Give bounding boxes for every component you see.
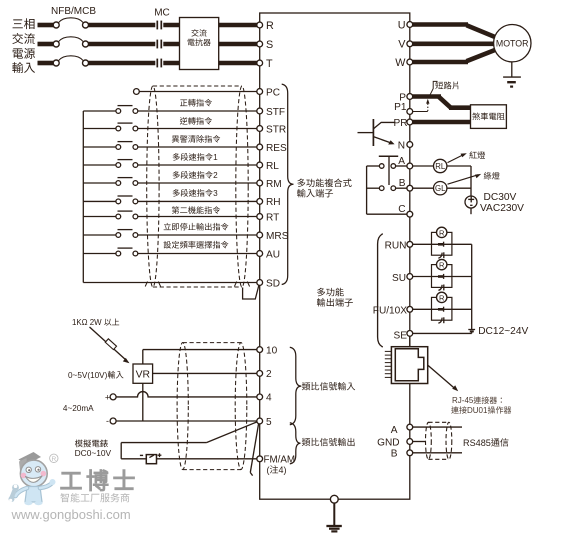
svg-text:RES: RES (266, 143, 287, 154)
svg-text:PC: PC (266, 87, 280, 98)
svg-text:MOTOR: MOTOR (496, 38, 529, 48)
svg-text:RL: RL (435, 162, 446, 171)
svg-text:PR: PR (394, 118, 408, 129)
svg-text:VAC230V: VAC230V (480, 203, 524, 214)
svg-text:MRS: MRS (266, 231, 289, 242)
svg-text:4): 4) (279, 465, 287, 475)
svg-text:RT: RT (266, 212, 279, 223)
svg-text:A: A (398, 156, 405, 167)
svg-text:DC0~10V: DC0~10V (75, 448, 112, 458)
svg-text:NFB/MCB: NFB/MCB (51, 6, 96, 17)
svg-text:2: 2 (266, 369, 272, 380)
svg-text:C: C (398, 204, 405, 215)
svg-text:MC: MC (154, 8, 170, 19)
svg-text:0~5V(10V): 0~5V(10V) (68, 371, 108, 380)
svg-text:U: U (398, 19, 406, 31)
svg-text:AU: AU (266, 249, 280, 260)
svg-text:N: N (398, 140, 405, 151)
svg-text:1: 1 (213, 153, 218, 162)
svg-text:RH: RH (266, 197, 281, 208)
svg-text:5: 5 (266, 417, 272, 428)
svg-text:B: B (391, 449, 398, 460)
svg-text:DU01: DU01 (467, 406, 488, 415)
svg-text:R: R (439, 261, 445, 270)
svg-text:3: 3 (213, 189, 218, 198)
svg-text:W: W (395, 57, 406, 69)
svg-text:V: V (398, 39, 406, 51)
svg-text:-: - (106, 416, 109, 426)
svg-text:DC30V: DC30V (484, 192, 517, 203)
svg-text:(: ( (267, 465, 270, 475)
svg-text:DC12~24V: DC12~24V (478, 326, 528, 337)
svg-text:GND: GND (377, 437, 399, 448)
svg-text:T: T (266, 58, 273, 70)
svg-text:R: R (51, 456, 56, 463)
svg-text:VR: VR (136, 370, 151, 381)
svg-text:A: A (391, 425, 398, 436)
svg-text:P1: P1 (394, 102, 407, 113)
svg-text:4: 4 (266, 393, 272, 404)
svg-text:www.gongboshi.com: www.gongboshi.com (11, 507, 131, 522)
svg-text:RS485: RS485 (463, 438, 491, 448)
svg-text:B: B (399, 178, 406, 189)
svg-text:STF: STF (266, 107, 285, 118)
svg-text:RM: RM (266, 179, 282, 190)
svg-text:4~20mA: 4~20mA (63, 404, 94, 413)
svg-text:SE: SE (394, 330, 408, 341)
svg-text:SU: SU (392, 273, 406, 284)
svg-text:S: S (266, 39, 273, 51)
svg-text:2: 2 (213, 171, 218, 180)
svg-text:R: R (439, 293, 445, 302)
svg-text:RJ-45: RJ-45 (452, 396, 474, 405)
svg-text:STR: STR (266, 124, 286, 135)
svg-text:RL: RL (266, 161, 279, 172)
svg-text:RUN: RUN (385, 241, 407, 252)
svg-text:+: + (105, 392, 110, 402)
svg-text:SD: SD (266, 278, 280, 289)
svg-text:10: 10 (266, 345, 278, 356)
svg-text:R: R (266, 20, 274, 32)
svg-text:GL: GL (435, 184, 446, 193)
svg-text:FU/10X: FU/10X (373, 306, 407, 317)
svg-text:1KΩ 2W: 1KΩ 2W (72, 318, 102, 327)
svg-text:R: R (439, 228, 445, 237)
